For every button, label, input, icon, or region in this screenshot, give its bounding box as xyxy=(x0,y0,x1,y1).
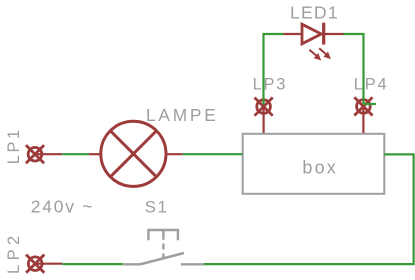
LED1 emission arrow 2 xyxy=(319,48,331,59)
S1 right contact pin xyxy=(181,263,204,265)
svg-text:box: box xyxy=(302,158,338,178)
lamp LAMPE xyxy=(89,121,183,186)
svg-text:LP4: LP4 xyxy=(354,75,389,93)
LED1 anode lead xyxy=(284,33,303,35)
S1 lever xyxy=(141,253,185,264)
box module xyxy=(243,134,385,194)
S1 left contact pin xyxy=(122,263,140,265)
wire net N3 LP1 to LAMPE xyxy=(62,153,89,155)
lamp LP2 xyxy=(27,256,62,272)
LP4 pin to box xyxy=(362,106,364,134)
wire net N1 top-left green segment xyxy=(264,34,284,105)
LED1 cathode bar xyxy=(322,23,325,45)
wire net N4 LAMPE to box xyxy=(183,153,243,155)
LP3 pin to box xyxy=(263,107,265,134)
LP1 pin xyxy=(35,153,62,155)
svg-text:LAMPE: LAMPE xyxy=(146,105,219,125)
LAMPE circle xyxy=(101,121,166,186)
svg-text:S1: S1 xyxy=(145,197,169,216)
LED LED1 xyxy=(284,23,344,61)
S1 actuator dashed link xyxy=(162,244,164,250)
LP2 pin xyxy=(35,263,62,265)
LED1 emission arrow 1 xyxy=(309,50,321,61)
LAMPE X xyxy=(110,131,156,177)
LAMPE right lead xyxy=(166,153,183,155)
wire net N6 LP2 to switch xyxy=(62,263,122,265)
svg-text:240v ~: 240v ~ xyxy=(31,196,95,216)
lamp LP1 xyxy=(27,146,62,162)
LED1 cathode lead xyxy=(325,33,344,35)
S1 actuator bar xyxy=(148,230,178,240)
lamp LP4 xyxy=(355,98,371,134)
wire net N5 box right, down and along bottom to switch xyxy=(204,154,414,264)
svg-text:LP3: LP3 xyxy=(253,75,288,93)
LED1 triangle xyxy=(302,24,321,44)
wire net N2 stub right of LP4 xyxy=(364,103,377,105)
svg-text:LP2: LP2 xyxy=(5,231,23,274)
svg-text:LED1: LED1 xyxy=(290,3,339,23)
lamp LP3 xyxy=(256,99,272,135)
wire net N2 top-right green segment xyxy=(344,34,364,104)
switch S1 xyxy=(122,229,203,264)
S1 actuator link tick xyxy=(162,229,164,240)
svg-text:LP1: LP1 xyxy=(5,127,23,164)
LAMPE left lead xyxy=(89,153,101,155)
